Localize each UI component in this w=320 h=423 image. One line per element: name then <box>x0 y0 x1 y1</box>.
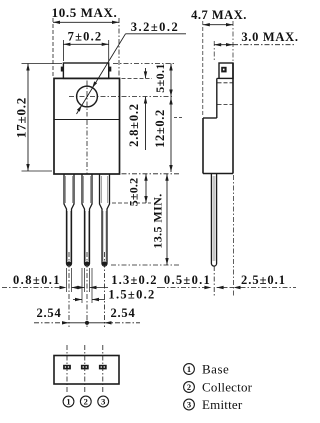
side view tab hole mark <box>221 67 226 73</box>
svg-text:3.2±0.2: 3.2±0.2 <box>131 20 180 34</box>
ext line side back <box>232 21 234 61</box>
ext line tab left <box>62 40 64 61</box>
side view body step <box>203 117 217 119</box>
dim 13.5 line <box>166 174 168 265</box>
ext line side front <box>202 21 204 116</box>
side view body outline <box>202 118 204 174</box>
front view mounting tab <box>63 63 108 78</box>
svg-text:Emitter: Emitter <box>202 397 243 412</box>
tab left ear <box>61 67 64 72</box>
svg-text:0.8±0.1: 0.8±0.1 <box>13 273 61 287</box>
lead centerline bottom <box>213 266 215 297</box>
pin 1 (base lead) <box>64 174 74 266</box>
legend item 3 circle <box>184 399 195 410</box>
ext line tab top left <box>22 63 63 65</box>
ext line body bottom right <box>122 173 181 175</box>
pin number 1 circle <box>63 396 74 407</box>
dim 1.5 line <box>73 299 82 301</box>
pin number 3 circle <box>98 396 109 407</box>
dim 17 line <box>27 64 29 172</box>
svg-text:5±0.2: 5±0.2 <box>127 178 141 207</box>
bottom view slot 3 <box>99 365 107 370</box>
pin 2 (collector lead) <box>82 174 92 266</box>
bottom view outline <box>54 356 119 385</box>
ext line side back bottom <box>233 175 235 297</box>
svg-text:2.8±0.2: 2.8±0.2 <box>127 103 141 147</box>
side view dashed line 2 <box>218 104 233 106</box>
dim 7 line <box>63 43 108 45</box>
pin 3 (emitter lead) <box>100 174 110 266</box>
svg-text:3: 3 <box>101 397 105 407</box>
ext line tab top right <box>113 63 174 65</box>
ext line body left top <box>52 18 54 76</box>
dim 1.3 trailing line <box>157 287 160 289</box>
dim 4.7 line <box>203 24 233 26</box>
body mold step line <box>54 119 120 121</box>
svg-text:3.0 MAX.: 3.0 MAX. <box>241 30 298 44</box>
ext line tab right <box>108 40 110 61</box>
bottom view centerline 2 <box>84 345 86 393</box>
bottom view slot 2 <box>81 365 89 370</box>
side view upper body <box>216 78 218 118</box>
svg-text:12±0.2: 12±0.2 <box>153 109 167 148</box>
legend item 2 circle <box>184 382 195 393</box>
svg-text:17±0.2: 17±0.2 <box>14 97 29 138</box>
bottom view centerline 3 <box>102 345 104 393</box>
ext line shoulder end <box>112 202 151 204</box>
dim 2.54 line <box>34 322 69 324</box>
svg-text:1.3±0.2: 1.3±0.2 <box>111 273 158 287</box>
ext line body top right <box>122 77 153 79</box>
pin1 edge ext lines <box>66 268 68 292</box>
dim 2.8 line <box>145 68 147 78</box>
svg-text:4.7 MAX.: 4.7 MAX. <box>191 8 247 22</box>
svg-text:1: 1 <box>66 397 70 407</box>
side view tab ear <box>219 63 233 78</box>
hole vertical centerline <box>86 81 88 117</box>
side view lead <box>211 174 216 267</box>
svg-text:2: 2 <box>187 382 191 392</box>
dim 5 (shoulder) line <box>145 174 147 203</box>
dim 5 (tab to hole) line <box>170 64 172 97</box>
ext line body bottom left <box>22 170 53 172</box>
svg-text:5±0.1: 5±0.1 <box>153 63 167 93</box>
ext line body right top <box>118 18 120 76</box>
svg-text:3: 3 <box>187 400 191 410</box>
dim 3.2 leader <box>126 33 187 35</box>
dim 3.0 line <box>214 44 233 46</box>
dim 0.8 line <box>2 287 60 289</box>
side view dashed line 1 <box>218 82 233 84</box>
pin 3 centerline <box>104 252 106 327</box>
dim 0.5 line <box>160 287 204 289</box>
svg-text:1: 1 <box>187 364 191 374</box>
svg-text:0.5±0.1: 0.5±0.1 <box>164 273 211 287</box>
dim 2.5 line <box>224 287 234 289</box>
ext line pin ends <box>111 264 180 266</box>
pin 1 centerline <box>68 252 70 327</box>
dim 10.5 line <box>53 21 119 23</box>
svg-text:2: 2 <box>84 397 88 407</box>
svg-text:7±0.2: 7±0.2 <box>68 30 103 44</box>
svg-text:2.54: 2.54 <box>110 306 135 320</box>
body vertical centerline <box>86 120 88 174</box>
pin2 shoulder edge ext lines <box>81 268 83 303</box>
tab right ear <box>109 67 112 72</box>
hole horizontal centerline <box>69 96 173 98</box>
dim 1.3 line <box>78 287 85 289</box>
svg-text:2.5±0.1: 2.5±0.1 <box>241 273 286 287</box>
bottom view slot 1 <box>63 365 71 370</box>
svg-text:2.54: 2.54 <box>36 306 61 320</box>
pin2 narrow edge ext lines <box>84 268 86 292</box>
svg-text:Collector: Collector <box>202 380 253 395</box>
svg-text:Base: Base <box>202 362 229 377</box>
bottom view centerline 1 <box>66 345 68 393</box>
pin number 2 circle <box>80 396 91 407</box>
front view body <box>54 78 120 174</box>
legend item 1 circle <box>184 364 195 375</box>
svg-text:1.5±0.2: 1.5±0.2 <box>108 288 155 302</box>
dim 12 line <box>170 97 172 173</box>
pin 2 centerline <box>86 252 88 327</box>
svg-text:13.5 MIN.: 13.5 MIN. <box>151 193 165 248</box>
svg-text:10.5 MAX.: 10.5 MAX. <box>52 5 118 20</box>
ext line lead center top <box>213 41 215 61</box>
mounting hole <box>77 86 98 107</box>
